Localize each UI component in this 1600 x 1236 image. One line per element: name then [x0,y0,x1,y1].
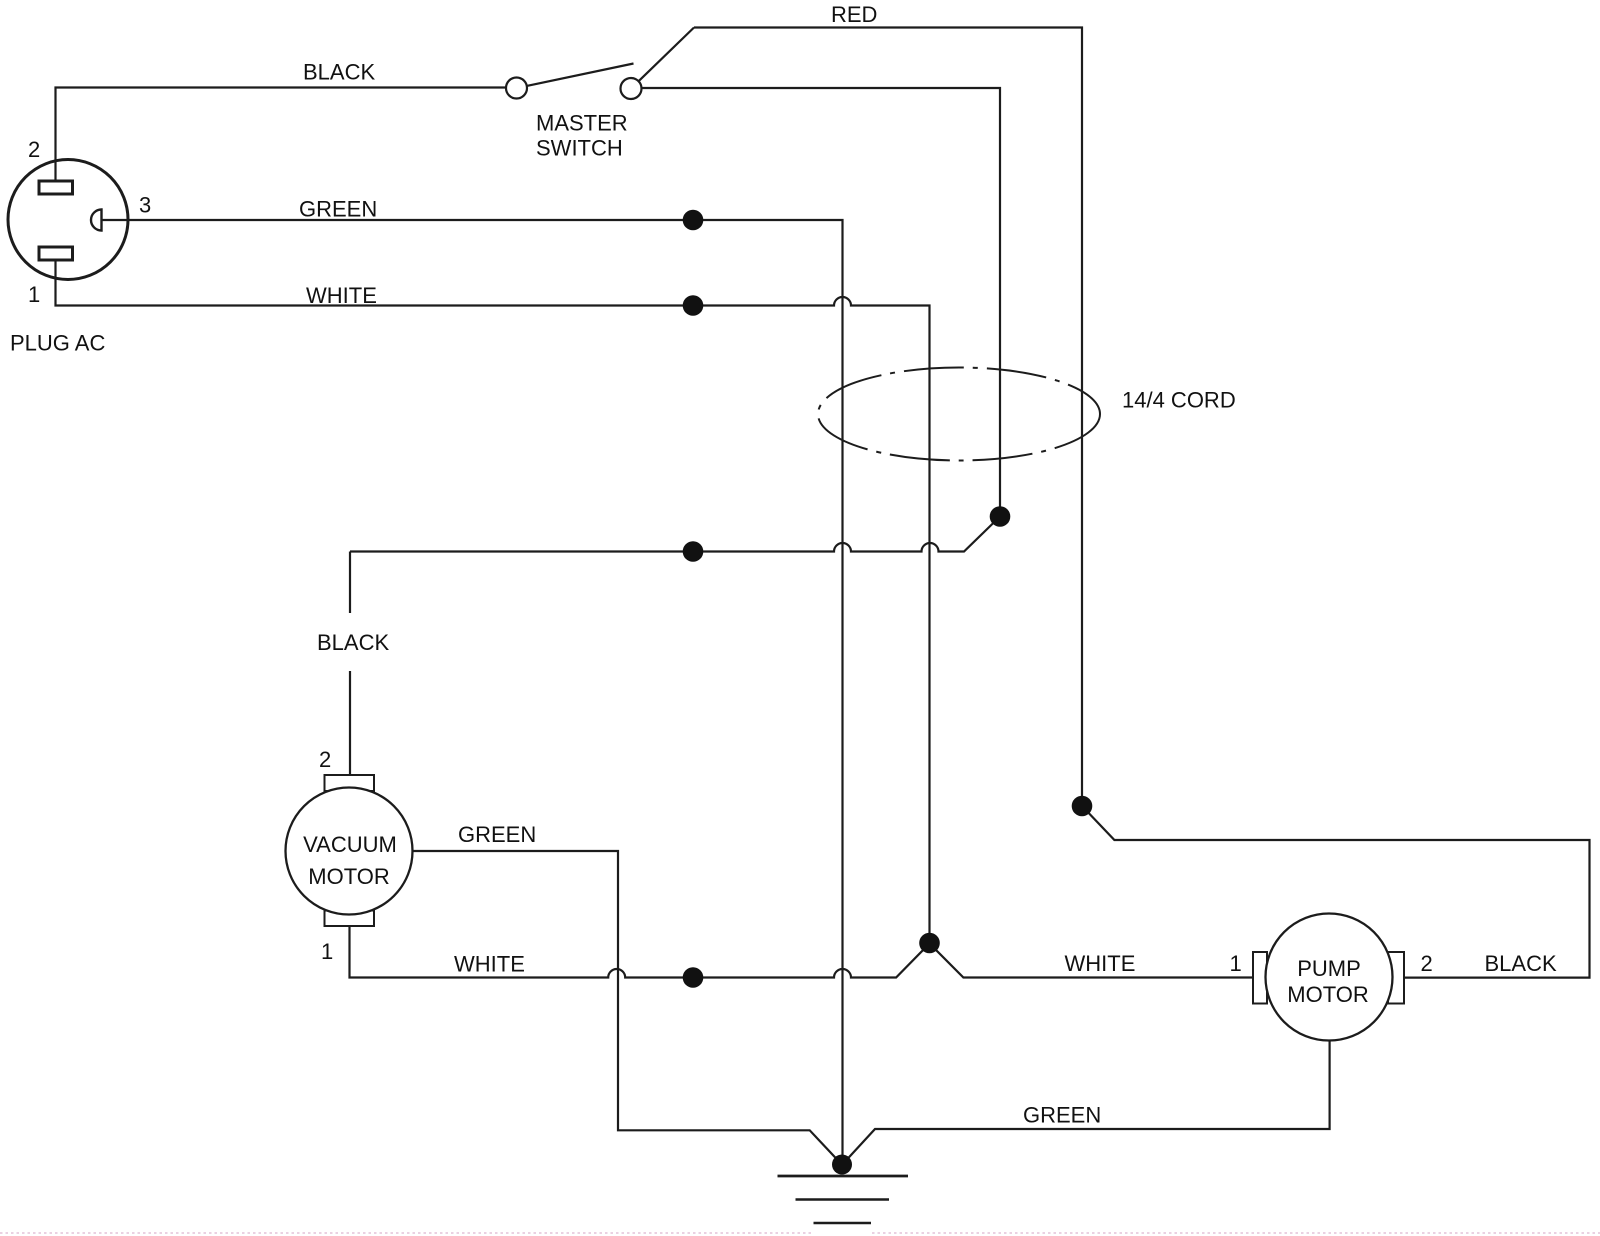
plug AC body circle [8,160,128,280]
vacuum motor terminal 2 [325,775,375,791]
svg-text:2: 2 [1421,951,1433,976]
svg-text:PUMP: PUMP [1297,956,1361,981]
svg-text:GREEN: GREEN [299,197,377,222]
pump motor terminal 1 [1253,952,1267,1004]
svg-text:1: 1 [28,282,40,307]
ground symbol [778,1176,909,1223]
wire red from switch to right drop [694,28,1082,807]
svg-text:2: 2 [28,137,40,162]
wire black vertical to vacuum motor terminal 2 (gap for label) [349,552,351,776]
pump motor terminal 2 [1388,952,1404,1004]
vacuum motor body [286,788,413,915]
wire black from plug pin2 to switch [56,88,507,182]
svg-text:BLACK: BLACK [1485,951,1557,976]
svg-text:RED: RED [831,2,877,27]
pump motor body [1266,914,1393,1041]
wire black horizontal to vacuum motor with hops [350,517,1000,552]
wire red/black to pump motor terminal 2 [1082,806,1590,978]
wire black from switch to vertical drop [642,88,1001,517]
wire white from plug pin1 with hop [56,260,930,943]
switch blade [527,64,634,86]
master switch contact circle left [506,78,527,99]
junction dot white tent [919,933,940,954]
svg-text:BLACK: BLACK [317,630,389,655]
master switch contact circle right [621,78,642,99]
svg-text:GREEN: GREEN [1023,1103,1101,1128]
junction dot green wire [683,210,704,231]
junction dot white bottom wire [683,967,704,988]
svg-text:MASTER: MASTER [536,111,628,136]
svg-text:MOTOR: MOTOR [308,864,389,889]
junction dot black corner [990,506,1011,527]
svg-text:WHITE: WHITE [1065,951,1136,976]
ground junction dot [832,1155,852,1175]
vacuum motor terminal 1 [325,911,375,927]
plug slot pin 2 [39,181,73,194]
svg-text:WHITE: WHITE [454,952,525,977]
svg-text:BLACK: BLACK [303,60,375,85]
wire green from plug pin3 down to ground [102,220,843,1165]
wire switch to red corner [639,28,694,82]
svg-text:2: 2 [319,747,331,772]
svg-text:MOTOR: MOTOR [1287,982,1368,1007]
svg-text:1: 1 [1230,951,1242,976]
plug slot pin 1 [39,247,73,260]
svg-text:14/4 CORD: 14/4 CORD [1122,388,1236,413]
junction dot red corner [1072,796,1093,817]
faint scan artifact line bottom [0,1232,1600,1234]
14/4 cord ellipse [818,368,1100,461]
svg-text:1: 1 [321,939,333,964]
svg-text:VACUUM: VACUUM [303,832,397,857]
junction dot black wire [683,541,704,562]
svg-text:3: 3 [139,193,151,218]
wire green from vacuum motor to ground [413,851,840,1162]
plug ground pin 3 (D shape) [91,210,102,231]
svg-text:GREEN: GREEN [458,822,536,847]
junction dot white wire [683,295,704,316]
wire green from pump motor to ground [846,1041,1330,1161]
svg-text:WHITE: WHITE [306,283,377,308]
svg-text:PLUG AC: PLUG AC [10,331,105,356]
svg-text:SWITCH: SWITCH [536,136,623,161]
wire white bottom from vacuum motor terminal 1 with hops [350,926,1254,978]
